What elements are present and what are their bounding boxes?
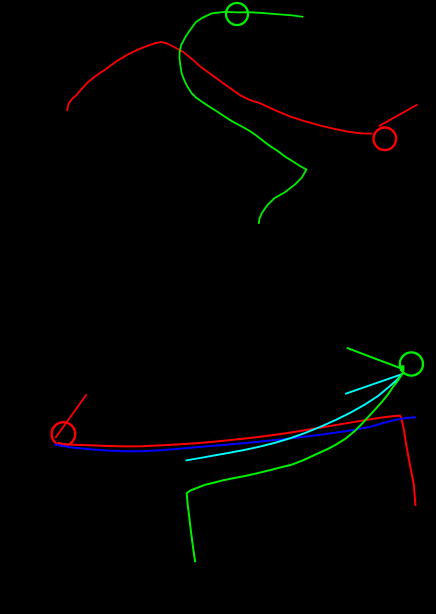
wire red heading ray top-right	[379, 105, 418, 127]
node green hub marker	[400, 365, 405, 371]
wire red trajectory bottom	[58, 416, 416, 506]
red circle top-right	[374, 128, 397, 151]
wire blue trajectory bottom	[55, 417, 417, 451]
wire green trajectory top	[180, 12, 307, 224]
green circle bottom-right	[400, 352, 423, 375]
wire green long trajectory bottom	[187, 373, 403, 562]
wire red trajectory top	[67, 42, 373, 134]
wire green heading ray bottom	[347, 348, 402, 369]
red circle bottom-left	[52, 422, 76, 446]
wire red heading ray bottom-left	[55, 394, 86, 438]
wire cyan short ray bottom	[345, 374, 403, 394]
wire cyan long trajectory bottom	[186, 374, 403, 461]
green circle top	[226, 3, 248, 25]
